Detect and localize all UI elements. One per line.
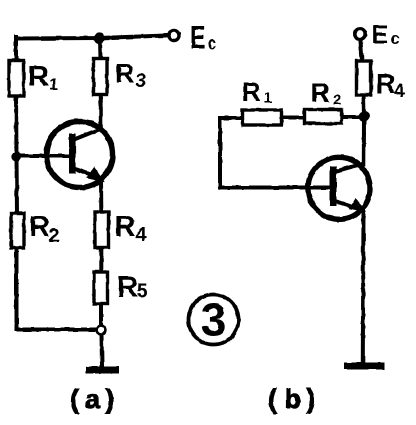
svg-text:2: 2 [49,225,60,247]
svg-text:2: 2 [333,92,341,109]
svg-text:5: 5 [137,281,148,303]
svg-text:R: R [311,78,331,108]
svg-text:c: c [391,31,400,48]
svg-text:a: a [85,384,101,414]
svg-text:R: R [376,68,396,99]
svg-text:(: ( [268,384,277,414]
svg-text:3: 3 [201,294,227,346]
svg-text:E: E [190,19,206,55]
svg-text:4: 4 [136,224,148,246]
svg-text:3: 3 [136,71,147,92]
svg-text:R: R [117,272,138,304]
svg-text:R: R [115,59,135,89]
svg-text:4: 4 [395,81,405,101]
svg-text:1: 1 [49,75,58,94]
svg-text:R: R [28,61,49,93]
svg-text:R: R [242,77,262,107]
svg-text:): ) [307,384,316,414]
svg-text:): ) [106,384,115,414]
svg-text:1: 1 [264,90,272,107]
svg-text:(: ( [70,384,79,414]
svg-text:R: R [29,211,50,243]
svg-text:E: E [372,20,389,50]
svg-text:R: R [115,211,136,243]
svg-text:c: c [208,34,216,55]
svg-text:b: b [285,384,302,414]
